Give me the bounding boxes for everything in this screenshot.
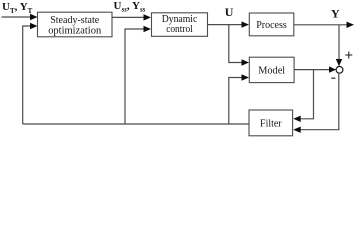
minus sign at summing junction	[331, 77, 335, 79]
wire: Uss,Yss line from steady-state to dynamic control	[112, 14, 151, 20]
block: Model	[249, 57, 294, 82]
wire: output Y line from process	[294, 22, 354, 28]
svg-text:Process: Process	[256, 19, 287, 31]
wire: model output to summing junction	[294, 66, 336, 72]
wire: summing junction output down into filter input 2	[293, 73, 339, 133]
wire: feedback riser into steady-state optimization	[23, 23, 38, 124]
svg-text:control: control	[166, 23, 193, 35]
svg-text:optimization: optimization	[48, 25, 101, 37]
block: Process	[249, 13, 293, 36]
wire: model output tap down into filter input 1	[293, 70, 313, 122]
wire: branch from U down into model input 1	[229, 25, 249, 66]
block: Steady-state optimization	[38, 12, 113, 37]
wire: feedback riser into model input 2	[229, 74, 249, 124]
wire: U line from dynamic control to process	[208, 21, 250, 27]
svg-text:U: U	[225, 5, 234, 19]
wire: setpoint input line UT,YT	[2, 14, 38, 20]
wire: filter output feedback line along bottom	[23, 123, 249, 125]
summing junction	[336, 66, 343, 73]
block: Dynamic control	[152, 13, 208, 37]
wire: Y tap down into summing junction	[336, 25, 342, 67]
svg-text:Y: Y	[331, 7, 340, 21]
wire: feedback riser into dynamic control	[125, 26, 151, 124]
block: Filter	[249, 110, 293, 136]
plus sign at summing junction	[345, 52, 352, 59]
svg-text:Model: Model	[258, 64, 285, 76]
svg-text:Filter: Filter	[260, 118, 282, 130]
